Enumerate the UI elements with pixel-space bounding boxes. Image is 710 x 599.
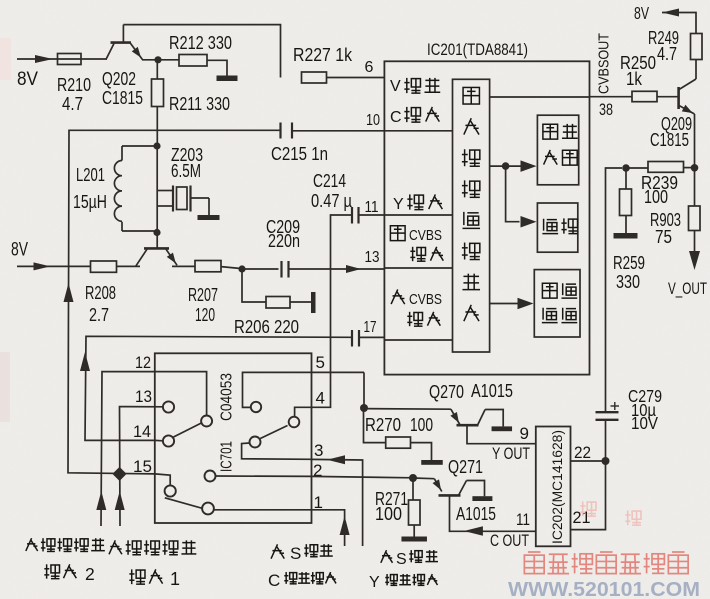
transistor (buffer, unlabeled) xyxy=(136,248,177,265)
capacitor C215 1n xyxy=(271,123,328,165)
switch contact (pin12 common) xyxy=(201,416,212,427)
svg-text:R206 220: R206 220 xyxy=(234,316,299,337)
block sync separation xyxy=(537,115,578,185)
svg-text:22: 22 xyxy=(574,443,591,462)
wire node to C209 xyxy=(242,268,279,270)
svg-text:S: S xyxy=(396,551,407,568)
capacitor C209 220n xyxy=(266,216,300,278)
label IC202(MC141628) vertical xyxy=(550,430,565,544)
transistor Q270 A1015 xyxy=(450,409,503,426)
svg-text:4: 4 xyxy=(316,389,325,408)
svg-text:75: 75 xyxy=(655,226,672,247)
resistor R903 75 xyxy=(650,168,700,252)
label int-CVBS input (pin13 row) xyxy=(390,226,443,261)
wire pin13 row internal xyxy=(384,267,452,269)
pin 4 label xyxy=(316,389,325,408)
resistor R250 1k xyxy=(620,52,657,102)
svg-text:CVBS: CVBS xyxy=(409,292,442,308)
label ext video signal input 1 xyxy=(109,540,196,589)
ground (R271) xyxy=(401,537,427,542)
wire transistor emitter to R207 xyxy=(172,265,195,267)
block delay xyxy=(537,203,577,252)
svg-text:R208: R208 xyxy=(85,282,116,303)
label Y OUT xyxy=(492,444,530,463)
ground (R206, vertical bar) xyxy=(311,292,316,313)
IC IC202 MC141628 box xyxy=(536,427,571,547)
switch contact (pin15) xyxy=(165,485,176,496)
svg-text:4.7: 4.7 xyxy=(62,93,83,114)
pin 2 label xyxy=(313,461,322,480)
pin 9 label xyxy=(520,424,529,443)
ground (Q270 collector) xyxy=(492,426,513,431)
wire C279 top to R239 node xyxy=(606,168,623,411)
ground (R259) xyxy=(614,233,638,239)
pin 12 label xyxy=(135,353,151,372)
svg-text:Y: Y xyxy=(369,574,380,591)
power label 8V (top right) xyxy=(634,3,649,23)
node Q209 emitter junction xyxy=(691,164,699,172)
wire C214 to IC201 pin 11 xyxy=(359,214,385,216)
wire IC701 pin 3 internal hook xyxy=(242,443,312,459)
svg-text:10V: 10V xyxy=(631,413,658,433)
svg-text:CVBS: CVBS xyxy=(409,228,442,244)
label ext S terminal (Y) xyxy=(369,550,438,591)
wire net A vertical (ext video 2 to C215) xyxy=(64,130,281,474)
wire R212 to ground xyxy=(207,60,227,75)
svg-text:100: 100 xyxy=(410,414,433,435)
svg-text:C215 1n: C215 1n xyxy=(271,143,328,164)
wire pin5 to Q270 node xyxy=(363,372,365,404)
svg-text:38: 38 xyxy=(599,100,613,119)
svg-text:13: 13 xyxy=(135,387,152,406)
node R239 left junction xyxy=(622,164,630,172)
svg-text:14: 14 xyxy=(133,422,151,441)
pin 6 label xyxy=(365,59,374,76)
wire IC201 pin 38 to R250 xyxy=(590,96,633,98)
wire IC701 pin4 to C214 xyxy=(312,215,352,407)
svg-text:6: 6 xyxy=(365,59,374,76)
node Q271 emitter junction xyxy=(409,474,417,482)
wire Q202 collector to top rail xyxy=(123,25,280,78)
IC IC201 TDA8841 box xyxy=(384,61,589,374)
svg-text:R211 330: R211 330 xyxy=(169,93,230,114)
wire pin17 row internal xyxy=(384,339,452,341)
svg-text:11: 11 xyxy=(365,199,379,216)
paper smudges xyxy=(0,38,11,422)
watermark URL (blue) xyxy=(508,578,700,599)
pin 14 label xyxy=(133,422,151,441)
svg-text:V_OUT: V_OUT xyxy=(668,279,707,298)
svg-text:C OUT: C OUT xyxy=(490,531,529,550)
inductor L201 15uH xyxy=(73,146,157,231)
pin 13 label xyxy=(365,249,380,266)
wire C215 to IC201 pin 10 xyxy=(292,130,384,132)
node Q202 emitter junction xyxy=(154,56,161,63)
resistor R207 120 xyxy=(188,261,221,326)
wire R208 to transistor xyxy=(117,265,141,267)
svg-text:15µH: 15µH xyxy=(73,191,107,212)
svg-text:R227 1k: R227 1k xyxy=(293,44,353,65)
svg-text:C214: C214 xyxy=(313,170,346,191)
wire net B (pin17 cap to IC701 pin14) xyxy=(80,336,352,440)
transistor Q271 A1015 xyxy=(433,479,485,497)
label selection switch (vertical hanzi) xyxy=(462,87,480,321)
svg-text:C: C xyxy=(390,109,402,126)
node L201 bottom xyxy=(153,229,160,236)
wire R250 to Q209 base xyxy=(657,96,678,98)
wire IC701 pin 2 internal xyxy=(216,475,312,477)
wire pin 2 to Q271 node xyxy=(312,476,414,477)
wire ext video input 1 to IC701 pin 13 xyxy=(115,407,163,526)
svg-text:IC701: IC701 xyxy=(219,441,236,472)
crystal Z203 6.5M xyxy=(157,144,209,215)
wire node to Q271 emitter xyxy=(413,477,434,480)
switch arm (pin14-pin12) xyxy=(174,423,202,437)
resistor R259 330 xyxy=(613,171,645,292)
svg-text:5: 5 xyxy=(316,353,325,372)
wire pin38 internal xyxy=(490,96,590,98)
wire IC701 pin 15 internal xyxy=(155,474,170,485)
resistor R227 1k xyxy=(293,44,353,83)
switch contact (pin5) xyxy=(251,402,261,412)
label V-output (pin6 row) xyxy=(390,78,440,95)
label IC701 (vertical) xyxy=(219,441,236,472)
wire IC701 pin 5 internal xyxy=(243,372,365,407)
wire Q202 emitter to node xyxy=(142,59,179,61)
svg-text:17: 17 xyxy=(364,319,377,336)
resistor R270 100 xyxy=(364,410,434,460)
svg-text:CVBSOUT: CVBSOUT xyxy=(596,33,613,94)
wire R249 to 8V arrow xyxy=(662,9,696,34)
capacitor C214 0.47u xyxy=(311,170,359,224)
switch arm (pin4-pin3) xyxy=(260,426,287,439)
svg-text:Q202: Q202 xyxy=(102,68,136,89)
svg-text:13: 13 xyxy=(365,249,380,266)
watermark hanzi (red) xyxy=(524,552,688,574)
wire ext video input 2 to IC701 pin 12 xyxy=(96,372,155,526)
svg-text:R270: R270 xyxy=(365,414,401,435)
svg-text:330: 330 xyxy=(616,271,640,292)
wire branch to delay with arrow xyxy=(506,166,537,227)
switch contact (pin4 common) xyxy=(289,417,300,428)
wire IC202 pin 22 xyxy=(571,460,606,462)
wire pin10 row internal xyxy=(384,130,452,132)
node sync/delay branch xyxy=(502,162,510,170)
switch contact (pin14) xyxy=(163,435,174,446)
svg-text:15: 15 xyxy=(133,457,152,476)
wire switch to sync-sep with arrow xyxy=(490,160,537,172)
wire pin11 row internal xyxy=(384,214,452,216)
svg-text:120: 120 xyxy=(195,304,215,325)
label ext S terminal (C) xyxy=(268,544,336,590)
label Q271 xyxy=(448,456,483,477)
svg-text:1: 1 xyxy=(170,569,180,589)
svg-text:Q271: Q271 xyxy=(448,456,483,477)
V_OUT output arrow xyxy=(668,251,707,298)
svg-text:Y OUT: Y OUT xyxy=(492,444,530,463)
svg-text:8V: 8V xyxy=(17,69,38,90)
svg-text:1k: 1k xyxy=(626,68,643,89)
label C-input (pin10 row) xyxy=(390,107,439,126)
node R211-L201 top xyxy=(153,142,160,149)
label C04053 (vertical) xyxy=(219,373,236,421)
wire Q271 base to IC202 pin 11 with arrow xyxy=(450,495,536,535)
inner selection switch box xyxy=(453,79,490,352)
svg-text:C: C xyxy=(268,571,280,590)
ground (R270) xyxy=(421,460,443,465)
label ext video signal input 2 xyxy=(26,538,105,584)
resistor R239 100 xyxy=(626,162,695,208)
label Q270 xyxy=(429,381,464,402)
svg-text:8V: 8V xyxy=(11,240,28,261)
transistor Q202 C1815 xyxy=(102,25,143,108)
svg-text:R259: R259 xyxy=(613,252,645,273)
svg-text:C1815: C1815 xyxy=(102,87,143,108)
IC IC701 CD4053 box xyxy=(155,353,312,523)
wire node down to L201 bottom node xyxy=(156,146,158,249)
block chroma channel xyxy=(534,270,580,337)
capacitor C279 10u 10V xyxy=(596,386,663,461)
transistor Q209 C1815 xyxy=(650,60,696,165)
pin 17 label xyxy=(364,319,377,336)
resistor R249 4.7 xyxy=(648,27,702,64)
svg-text:V: V xyxy=(390,78,401,95)
pin 1 label xyxy=(314,493,323,512)
switch contact (pin1 common) xyxy=(202,503,214,515)
label A1015 (Q271) xyxy=(456,503,496,524)
pin 11 label xyxy=(365,199,379,216)
capacitor (pin 17 coupling) xyxy=(352,330,359,347)
svg-text:0.47 µ: 0.47 µ xyxy=(311,190,352,211)
wire pin 3 input (ext S C-signal) with arrow xyxy=(312,455,363,546)
switch contact (pin13) xyxy=(163,401,174,412)
wire C209 to pin 13 with arrow xyxy=(289,265,385,273)
wire R207 to node xyxy=(221,267,242,269)
wire switch to chroma with arrow xyxy=(490,298,534,310)
svg-text:4.7: 4.7 xyxy=(657,43,677,64)
ground (Q271 collector) xyxy=(472,496,492,501)
svg-text:IC201(TDA8841): IC201(TDA8841) xyxy=(427,40,528,59)
svg-text:3: 3 xyxy=(314,441,323,460)
svg-text:R212 330: R212 330 xyxy=(169,32,232,53)
wire Q270 base to IC202 pin 9 xyxy=(467,425,536,444)
wire IC701 pin 14 internal xyxy=(155,439,163,441)
wire IC701 pin 4 internal xyxy=(295,407,312,416)
wire 8V feed 2 with arrow xyxy=(17,262,91,270)
svg-text:WWW.520101.COM: WWW.520101.COM xyxy=(508,578,700,599)
label CVBSOUT (vertical) xyxy=(596,33,613,94)
svg-text:C1815: C1815 xyxy=(650,129,689,150)
svg-text:A1015: A1015 xyxy=(456,503,496,524)
ground (R212) xyxy=(217,76,238,82)
switch arm (pin15-pin1) xyxy=(165,498,203,509)
node R207/C209/R206 xyxy=(238,265,245,272)
pin 22 label xyxy=(574,443,591,462)
pin 38 label xyxy=(599,100,613,119)
label C OUT xyxy=(490,531,529,550)
wire R206 to ground xyxy=(290,301,311,303)
switch contact (pin2 common) xyxy=(205,471,216,482)
power label 8V (left mid) xyxy=(11,240,28,261)
label ext-CVBS input (pin17 row) xyxy=(391,289,442,326)
label Y-input (pin11 row) xyxy=(393,194,442,213)
svg-text:100: 100 xyxy=(644,186,668,207)
svg-text:IC202(MC141628): IC202(MC141628) xyxy=(550,430,565,544)
resistor R210 xyxy=(57,54,91,115)
svg-text:Y: Y xyxy=(393,196,404,213)
svg-text:S: S xyxy=(290,544,301,563)
wire 8V feed with arrow xyxy=(17,55,107,63)
svg-text:C04053: C04053 xyxy=(219,373,236,421)
pin 5 label xyxy=(316,353,325,372)
wire IC202 pin 21 xyxy=(571,461,606,530)
resistor R208 2.7 xyxy=(85,261,117,325)
pin 15 label xyxy=(133,457,152,476)
svg-text:2.7: 2.7 xyxy=(89,304,109,325)
svg-text:R207: R207 xyxy=(188,284,218,305)
wire R227 to IC201 pin 6 xyxy=(327,77,385,79)
svg-text:11: 11 xyxy=(516,510,530,529)
svg-text:10: 10 xyxy=(366,112,380,129)
label A1015 (Q270) xyxy=(471,380,513,401)
ground (Z203) xyxy=(198,215,220,220)
node pin22/21/C279 xyxy=(602,457,610,465)
resistor R211 330 xyxy=(152,60,231,144)
svg-text:Q270: Q270 xyxy=(429,381,464,402)
resistor R206 220 xyxy=(234,297,299,338)
wire node to R206 xyxy=(242,269,266,302)
pin 21 label xyxy=(573,508,591,527)
wire IC701 pin 12 internal xyxy=(155,372,207,416)
wire node to Q270 emitter xyxy=(364,408,451,411)
svg-text:2: 2 xyxy=(85,564,95,584)
svg-text:220n: 220n xyxy=(268,230,300,251)
svg-text:L201: L201 xyxy=(76,164,105,185)
label IC201(TDA8841) xyxy=(427,40,528,59)
resistor R212 330 xyxy=(169,32,232,66)
svg-text:8V: 8V xyxy=(634,3,649,23)
watermark fragments (faint red) xyxy=(580,501,641,525)
pin 13 label xyxy=(135,387,152,406)
node ext video 1 / pin15 junction xyxy=(112,467,126,481)
pin 10 label xyxy=(366,112,380,129)
wire IC701 pin 1 internal xyxy=(214,509,312,511)
svg-text:6.5M: 6.5M xyxy=(171,160,201,181)
power label 8V (top left) xyxy=(17,69,38,90)
resistor R271 100 xyxy=(375,478,420,537)
wire cap to IC201 pin 17 xyxy=(359,336,384,338)
switch contact (pin3) xyxy=(250,437,261,448)
svg-text:9: 9 xyxy=(520,424,529,443)
svg-text:R210: R210 xyxy=(57,74,91,95)
pin 11 label xyxy=(516,510,530,529)
wire pin 1 to input stub xyxy=(312,510,350,546)
pin 3 label xyxy=(314,441,323,460)
node Q270 emitter junction xyxy=(360,404,368,412)
svg-text:12: 12 xyxy=(135,353,151,372)
svg-text:100: 100 xyxy=(375,503,402,524)
svg-text:A1015: A1015 xyxy=(471,380,513,401)
